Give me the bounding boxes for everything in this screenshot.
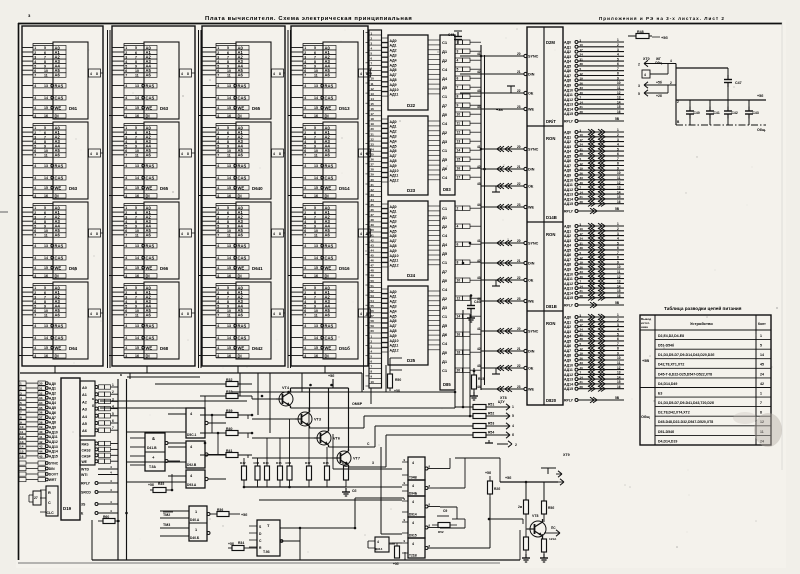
svg-text:D4,D14,D49: D4,D14,D49 xyxy=(658,382,677,386)
svg-text:OE: OE xyxy=(528,367,534,371)
svg-text:21: 21 xyxy=(371,132,375,136)
AD bus lines group 3 xyxy=(564,222,624,300)
svg-text:8: 8 xyxy=(96,72,98,76)
svg-text:DIN: DIN xyxy=(528,73,535,77)
svg-text:7: 7 xyxy=(125,74,127,78)
svg-text:1: 1 xyxy=(617,222,619,226)
svg-text:8: 8 xyxy=(617,256,619,260)
svg-text:Общ: Общ xyxy=(641,415,650,419)
svg-text:16: 16 xyxy=(135,194,139,198)
svg-text:АД2: АД2 xyxy=(390,130,397,134)
RPLY line group 2 xyxy=(564,207,624,214)
svg-text:10: 10 xyxy=(457,113,461,117)
svg-text:2: 2 xyxy=(304,131,306,135)
svg-text:1: 1 xyxy=(125,286,127,290)
svg-text:D516: D516 xyxy=(339,266,350,271)
capacitor C47 xyxy=(724,68,742,100)
svg-text:АД1: АД1 xyxy=(49,387,56,391)
svg-text:SYNC: SYNC xyxy=(528,330,539,334)
svg-text:Плата вычислителя. Схема эл: Плата вычислителя. Схема электрическая п… xyxy=(205,16,412,22)
svg-text:D42,Т8,ХТ1,ХТ2: D42,Т8,ХТ1,ХТ2 xyxy=(658,363,684,367)
svg-text:АД6: АД6 xyxy=(564,69,571,73)
svg-text:3: 3 xyxy=(617,138,619,142)
svg-text:2: 2 xyxy=(617,43,619,47)
svg-text:39: 39 xyxy=(39,425,43,429)
transistor VT6 xyxy=(314,429,340,447)
svg-text:DI: DI xyxy=(238,273,242,278)
svg-text:11: 11 xyxy=(617,176,621,180)
svg-text:АД11: АД11 xyxy=(390,344,399,348)
capacitor C42 xyxy=(724,100,738,125)
svg-text:3: 3 xyxy=(34,135,36,139)
svg-text:7: 7 xyxy=(34,234,36,238)
svg-text:9: 9 xyxy=(20,420,22,424)
svg-text:11: 11 xyxy=(314,154,318,158)
svg-text:1: 1 xyxy=(112,383,114,387)
svg-text:7: 7 xyxy=(227,55,229,59)
power pin box bank1 chip4 xyxy=(89,309,104,317)
svg-text:R41: R41 xyxy=(226,449,232,453)
svg-text:41: 41 xyxy=(477,327,481,331)
svg-text:4: 4 xyxy=(125,336,127,340)
svg-text:8: 8 xyxy=(279,72,281,76)
svg-text:4: 4 xyxy=(304,140,306,144)
svg-text:2: 2 xyxy=(304,211,306,215)
svg-text:43: 43 xyxy=(371,243,375,247)
svg-text:13: 13 xyxy=(617,280,621,284)
svg-text:CAS: CAS xyxy=(325,255,334,260)
svg-text:DIN: DIN xyxy=(528,350,535,354)
svg-text:15: 15 xyxy=(227,186,231,190)
svg-text:АД15: АД15 xyxy=(564,202,573,206)
svg-text:4: 4 xyxy=(304,346,306,350)
svg-text:DI: DI xyxy=(238,113,242,118)
svg-text:6: 6 xyxy=(227,211,229,215)
svg-text:Д4: Д4 xyxy=(442,76,448,81)
svg-text:АД12: АД12 xyxy=(390,349,399,353)
wire logic D-stack area xyxy=(405,507,465,560)
svg-text:RON: RON xyxy=(546,232,555,237)
svg-text:14: 14 xyxy=(227,336,231,340)
svg-text:Д1: Д1 xyxy=(442,49,448,54)
svg-text:4: 4 xyxy=(125,186,127,190)
logic gate D41 xyxy=(130,433,186,471)
svg-text:4: 4 xyxy=(125,114,127,118)
svg-text:24: 24 xyxy=(371,147,375,151)
svg-text:10: 10 xyxy=(44,69,48,73)
svg-text:14: 14 xyxy=(760,353,764,357)
svg-text:19: 19 xyxy=(580,77,584,81)
node OE stub group 2 xyxy=(492,186,503,192)
svg-text:АД13: АД13 xyxy=(564,378,573,382)
svg-text:4: 4 xyxy=(125,346,127,350)
svg-text:D19: D19 xyxy=(63,506,72,511)
svg-text:7: 7 xyxy=(304,314,306,318)
svg-text:4: 4 xyxy=(644,73,646,77)
svg-text:АД10: АД10 xyxy=(564,272,573,276)
svg-text:8: 8 xyxy=(135,60,137,64)
svg-text:4: 4 xyxy=(34,244,36,248)
svg-text:D45-D48,D22-D32,D547-D520,ХТ8: D45-D48,D22-D32,D547-D520,ХТ8 xyxy=(658,420,713,424)
svg-text:10: 10 xyxy=(227,149,231,153)
svg-text:АД12: АД12 xyxy=(564,188,573,192)
svg-text:10: 10 xyxy=(227,309,231,313)
svg-text:D640: D640 xyxy=(252,186,263,191)
capacitor C45 xyxy=(448,31,462,44)
svg-text:4: 4 xyxy=(110,471,112,475)
svg-text:CAS: CAS xyxy=(55,335,64,340)
svg-text:31: 31 xyxy=(580,147,584,151)
svg-text:С43: С43 xyxy=(753,111,759,115)
svg-text:20: 20 xyxy=(517,239,521,243)
svg-text:19: 19 xyxy=(580,167,584,171)
svg-text:Д3: Д3 xyxy=(442,139,448,144)
wire strip bottom xyxy=(371,365,386,404)
svg-text:6: 6 xyxy=(34,69,36,73)
svg-text:11: 11 xyxy=(227,74,231,78)
svg-text:R32: R32 xyxy=(226,378,232,382)
svg-text:+2б: +2б xyxy=(656,94,662,98)
svg-text:16: 16 xyxy=(457,167,461,171)
svg-text:D914: D914 xyxy=(409,513,417,517)
svg-text:АД1: АД1 xyxy=(390,125,397,129)
svg-text:14: 14 xyxy=(314,96,318,100)
svg-text:CAS: CAS xyxy=(55,255,64,260)
svg-text:A6: A6 xyxy=(238,73,244,78)
svg-text:14: 14 xyxy=(314,336,318,340)
svg-text:17: 17 xyxy=(580,138,584,142)
svg-text:40: 40 xyxy=(580,91,584,95)
svg-text:8: 8 xyxy=(314,140,316,144)
svg-text:16: 16 xyxy=(227,194,231,198)
svg-text:АД0: АД0 xyxy=(390,290,397,294)
svg-text:Т.5А: Т.5А xyxy=(149,465,156,469)
svg-text:24: 24 xyxy=(580,143,584,147)
svg-text:11: 11 xyxy=(314,234,318,238)
svg-text:16: 16 xyxy=(314,194,318,198)
logic gate D94Б xyxy=(402,480,440,496)
connector strip X1 xyxy=(366,30,382,388)
svg-text:6: 6 xyxy=(44,51,46,55)
svg-text:D641: D641 xyxy=(252,266,263,271)
svg-text:1: 1 xyxy=(617,313,619,317)
svg-text:2: 2 xyxy=(217,51,219,55)
svg-text:6: 6 xyxy=(227,291,229,295)
svg-text:DIN: DIN xyxy=(49,467,55,471)
svg-text:АД0: АД0 xyxy=(564,316,571,320)
svg-text:WE: WE xyxy=(528,206,534,210)
svg-text:4: 4 xyxy=(217,300,219,304)
svg-text:5: 5 xyxy=(304,64,306,68)
svg-text:АД3: АД3 xyxy=(564,55,571,59)
svg-text:RAS: RAS xyxy=(55,323,64,328)
svg-text:D2M: D2M xyxy=(546,40,555,45)
svg-text:38: 38 xyxy=(580,152,584,156)
svg-text:14: 14 xyxy=(44,336,48,340)
svg-text:+5б: +5б xyxy=(661,36,668,40)
svg-text:23: 23 xyxy=(517,203,521,207)
svg-text:DI: DI xyxy=(55,113,59,118)
svg-text:12: 12 xyxy=(617,275,621,279)
svg-text:4: 4 xyxy=(304,186,306,190)
svg-text:5: 5 xyxy=(44,46,46,50)
svg-text:R54: R54 xyxy=(488,431,494,435)
svg-text:4: 4 xyxy=(125,164,127,168)
svg-text:A6: A6 xyxy=(55,313,61,318)
svg-text:13: 13 xyxy=(44,84,48,88)
svg-text:Д0: Д0 xyxy=(442,350,448,355)
svg-text:5: 5 xyxy=(125,224,127,228)
svg-text:3: 3 xyxy=(372,461,374,465)
svg-text:10: 10 xyxy=(314,69,318,73)
svg-text:АД6: АД6 xyxy=(564,344,571,348)
svg-text:4: 4 xyxy=(304,84,306,88)
power pin box bank2 chip3 xyxy=(180,229,196,237)
svg-text:WE: WE xyxy=(528,388,534,392)
svg-text:5: 5 xyxy=(217,224,219,228)
svg-text:15: 15 xyxy=(314,186,318,190)
svg-text:6: 6 xyxy=(125,229,127,233)
svg-text:10: 10 xyxy=(20,425,24,429)
svg-text:а: а xyxy=(92,397,94,401)
svg-text:АД2: АД2 xyxy=(564,140,571,144)
svg-text:CAS: CAS xyxy=(238,335,247,340)
svg-text:13: 13 xyxy=(617,371,621,375)
svg-text:АД3: АД3 xyxy=(390,135,397,139)
svg-text:8: 8 xyxy=(760,411,762,415)
DRAM chip D66 xyxy=(109,202,179,279)
svg-text:АД7: АД7 xyxy=(564,164,571,168)
svg-text:4: 4 xyxy=(412,461,414,465)
svg-text:АД10: АД10 xyxy=(390,339,399,343)
svg-text:4: 4 xyxy=(34,140,36,144)
svg-text:Устройство: Устройство xyxy=(690,321,713,326)
svg-text:38: 38 xyxy=(580,337,584,341)
IC D22 xyxy=(382,35,441,110)
svg-text:9: 9 xyxy=(227,144,229,148)
svg-text:21: 21 xyxy=(580,380,584,384)
svg-text:WE: WE xyxy=(146,185,153,190)
svg-text:14: 14 xyxy=(135,176,139,180)
svg-text:2: 2 xyxy=(304,291,306,295)
svg-text:АД4: АД4 xyxy=(564,150,571,154)
svg-text:7: 7 xyxy=(314,295,316,299)
svg-text:Конт: Конт xyxy=(758,322,766,326)
svg-text:4: 4 xyxy=(34,114,36,118)
svg-text:С4: С4 xyxy=(442,67,448,72)
svg-text:14: 14 xyxy=(457,315,461,319)
sheet note text xyxy=(599,16,725,21)
svg-text:4: 4 xyxy=(34,176,36,180)
svg-text:58: 58 xyxy=(371,319,375,323)
svg-text:7: 7 xyxy=(44,55,46,59)
svg-text:4: 4 xyxy=(304,324,306,328)
svg-text:14: 14 xyxy=(617,375,621,379)
svg-text:+5б: +5б xyxy=(485,471,492,475)
svg-text:4: 4 xyxy=(304,300,306,304)
svg-text:4: 4 xyxy=(217,164,219,168)
svg-text:АД7: АД7 xyxy=(390,324,397,328)
svg-text:АД4: АД4 xyxy=(564,60,571,64)
svg-text:22: 22 xyxy=(517,89,521,93)
svg-text:4: 4 xyxy=(304,266,306,270)
svg-text:13: 13 xyxy=(314,84,318,88)
svg-text:14: 14 xyxy=(44,96,48,100)
svg-text:7: 7 xyxy=(217,154,219,158)
svg-text:4: 4 xyxy=(125,220,127,224)
flip-flop T93 xyxy=(249,520,300,556)
svg-text:1: 1 xyxy=(760,392,762,396)
resistor R33 vertical xyxy=(393,543,400,566)
transistor VT8 xyxy=(526,514,546,539)
svg-text:Д2: Д2 xyxy=(442,296,448,301)
svg-text:R47: R47 xyxy=(305,461,311,465)
svg-text:С4: С4 xyxy=(442,121,448,126)
register group label RON/D81V xyxy=(546,232,557,309)
svg-text:Д0: Д0 xyxy=(442,112,448,117)
register group label D2M/DRiT xyxy=(546,40,556,124)
svg-text:АД13: АД13 xyxy=(564,193,573,197)
svg-text:4: 4 xyxy=(412,521,414,525)
svg-text:12: 12 xyxy=(617,91,621,95)
svg-text:2: 2 xyxy=(217,211,219,215)
svg-text:A6: A6 xyxy=(325,153,331,158)
svg-text:WE: WE xyxy=(528,300,534,304)
node OE stub group 3 xyxy=(492,280,503,286)
transistor VT7 xyxy=(334,449,360,467)
svg-text:40: 40 xyxy=(580,275,584,279)
svg-text:+5б: +5б xyxy=(393,562,399,566)
svg-text:4: 4 xyxy=(34,256,36,260)
svg-text:6: 6 xyxy=(314,131,316,135)
wire connector strip feed xyxy=(363,30,365,390)
svg-text:31: 31 xyxy=(580,57,584,61)
svg-text:CAS: CAS xyxy=(325,175,334,180)
svg-text:+5б: +5б xyxy=(241,513,248,517)
svg-text:16: 16 xyxy=(371,107,375,111)
svg-text:7: 7 xyxy=(457,86,459,90)
svg-text:ЦТУ: ЦТУ xyxy=(498,400,506,404)
svg-text:12: 12 xyxy=(580,72,584,76)
svg-text:АД4: АД4 xyxy=(390,139,397,143)
svg-text:Д7: Д7 xyxy=(442,269,448,274)
svg-text:АД8: АД8 xyxy=(49,421,56,425)
svg-text:Д5: Д5 xyxy=(442,85,448,90)
svg-text:АД0: АД0 xyxy=(49,382,56,386)
svg-text:D94Б: D94Б xyxy=(409,492,418,496)
svg-text:АД11: АД11 xyxy=(49,435,58,439)
svg-text:DI: DI xyxy=(146,353,150,358)
svg-text:20: 20 xyxy=(517,327,521,331)
svg-text:13: 13 xyxy=(44,244,48,248)
svg-text:3: 3 xyxy=(34,55,36,59)
svg-text:DI: DI xyxy=(238,193,242,198)
svg-text:6: 6 xyxy=(304,69,306,73)
svg-text:WE: WE xyxy=(55,105,62,110)
svg-text:1: 1 xyxy=(304,206,306,210)
svg-text:АД3: АД3 xyxy=(390,305,397,309)
svg-text:R2б: R2б xyxy=(494,487,500,491)
wire bottom rail xyxy=(92,520,520,560)
svg-text:11: 11 xyxy=(227,234,231,238)
svg-text:5: 5 xyxy=(34,144,36,148)
svg-text:R40: R40 xyxy=(226,427,232,431)
ground transistor row xyxy=(342,488,356,496)
svg-text:VТ8: VТ8 xyxy=(532,514,538,518)
svg-text:АД12: АД12 xyxy=(564,282,573,286)
svg-text:9: 9 xyxy=(135,64,137,68)
svg-text:АД1: АД1 xyxy=(390,210,397,214)
svg-text:3: 3 xyxy=(304,55,306,59)
svg-text:CAS: CAS xyxy=(325,95,334,100)
logic gate T21V xyxy=(402,538,440,558)
svg-text:22: 22 xyxy=(517,364,521,368)
svg-text:DI: DI xyxy=(146,113,150,118)
resistor R50 vertical xyxy=(485,471,500,497)
svg-text:R: R xyxy=(48,491,51,495)
svg-text:42: 42 xyxy=(477,70,481,74)
svg-text:АД7: АД7 xyxy=(390,154,397,158)
connector output VT8 xyxy=(543,526,561,541)
svg-text:3: 3 xyxy=(217,295,219,299)
svg-text:С1: С1 xyxy=(442,40,448,45)
svg-text:ХТ9: ХТ9 xyxy=(563,453,570,457)
svg-text:9: 9 xyxy=(227,224,229,228)
svg-text:4: 4 xyxy=(217,176,219,180)
svg-text:3: 3 xyxy=(125,215,127,219)
resistor R41 xyxy=(200,449,252,458)
wire cap bank bottom xyxy=(676,125,766,132)
svg-text:42: 42 xyxy=(477,165,481,169)
svg-text:12: 12 xyxy=(580,162,584,166)
svg-text:8: 8 xyxy=(457,261,459,265)
svg-text:D61: D61 xyxy=(69,106,78,111)
svg-text:2: 2 xyxy=(125,211,127,215)
svg-text:8: 8 xyxy=(20,416,22,420)
wire cap bank top xyxy=(676,67,728,69)
svg-text:4: 4 xyxy=(217,84,219,88)
svg-text:5: 5 xyxy=(135,206,137,210)
svg-text:АД8: АД8 xyxy=(390,244,397,248)
svg-text:30: 30 xyxy=(39,382,43,386)
svg-text:13: 13 xyxy=(20,440,24,444)
svg-text:АД7: АД7 xyxy=(564,74,571,78)
svg-text:АД11: АД11 xyxy=(390,174,399,178)
wire logic to vt8 xyxy=(445,540,489,560)
logic gate T94V xyxy=(402,457,440,480)
svg-text:АД10: АД10 xyxy=(564,88,573,92)
svg-text:D41.В: D41.В xyxy=(147,446,157,450)
svg-text:15: 15 xyxy=(371,102,375,106)
svg-text:VТ4: VТ4 xyxy=(282,386,290,390)
svg-text:5: 5 xyxy=(217,304,219,308)
svg-text:4: 4 xyxy=(34,164,36,168)
svg-text:16: 16 xyxy=(44,274,48,278)
svg-text:11: 11 xyxy=(314,74,318,78)
svg-text:R34: R34 xyxy=(238,541,244,545)
svg-text:12: 12 xyxy=(617,181,621,185)
svg-text:CAS3: CAS3 xyxy=(82,448,91,452)
svg-text:1: 1 xyxy=(34,206,36,210)
svg-text:АД9: АД9 xyxy=(49,425,56,429)
svg-text:A6: A6 xyxy=(325,73,331,78)
svg-text:43: 43 xyxy=(477,364,481,368)
svg-text:DI: DI xyxy=(55,193,59,198)
svg-text:8: 8 xyxy=(279,152,281,156)
logic gate D92.V xyxy=(127,441,226,468)
capacitor C41 xyxy=(706,100,720,125)
svg-text:21: 21 xyxy=(580,289,584,293)
